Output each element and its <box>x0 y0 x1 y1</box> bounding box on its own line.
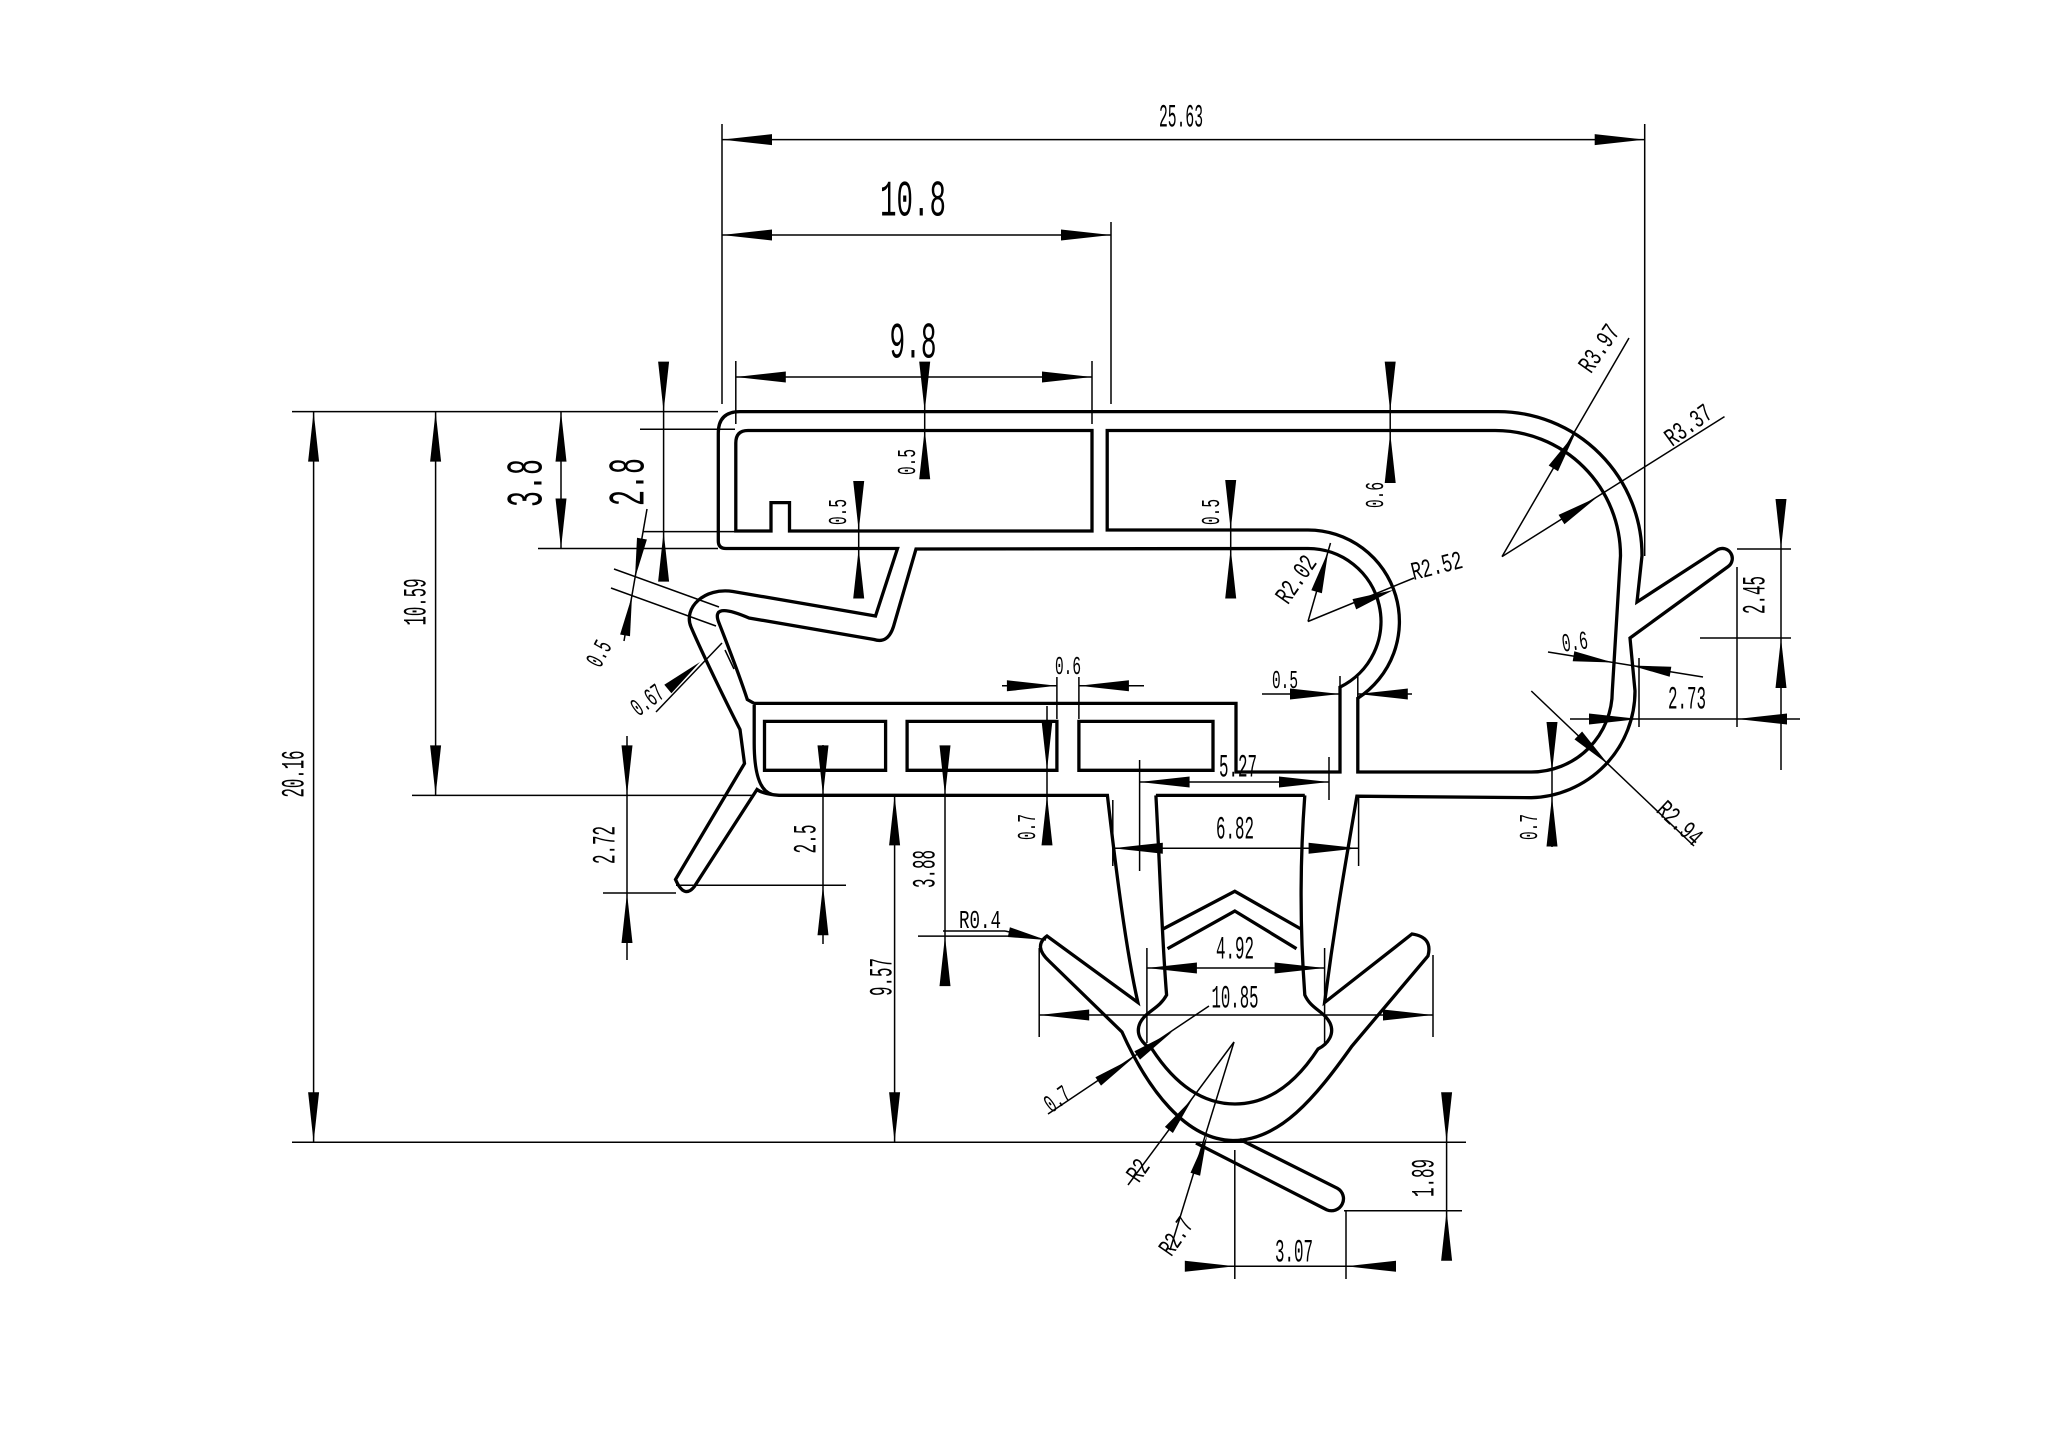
dimension 0.6 right top wall <box>1361 362 1396 508</box>
dimension 9.57 <box>865 795 902 1142</box>
dimension 0.5 neck <box>1262 666 1412 706</box>
svg-text:0.6: 0.6 <box>1055 652 1081 682</box>
radius R2.02 <box>1270 543 1331 622</box>
dimension 0.6 right wall <box>1548 626 1703 677</box>
right chamber void inner boundary <box>1107 431 1620 773</box>
dimension 9.8 <box>736 317 1092 425</box>
anchor chevron inner <box>1168 911 1297 949</box>
svg-text:0.5: 0.5 <box>1272 666 1298 696</box>
svg-text:4.92: 4.92 <box>1216 932 1254 969</box>
svg-text:0.7: 0.7 <box>1013 814 1043 840</box>
svg-text:3.88: 3.88 <box>908 850 945 888</box>
dimension 10.59 <box>399 412 753 796</box>
svg-text:R2.7: R2.7 <box>1153 1212 1201 1262</box>
anchor legs inner and bowl scoop <box>1138 795 1331 1104</box>
radius R2.7 <box>1153 1042 1234 1262</box>
steep wall right edge into band bottom <box>754 705 772 795</box>
dimension 2.8 <box>603 362 771 582</box>
dimension 0.5 top wall <box>893 362 930 480</box>
dimension 0.7 band wall right <box>1515 722 1558 847</box>
svg-text:2.45: 2.45 <box>1738 576 1775 614</box>
dimension 0.7 band wall left <box>1013 706 1053 845</box>
dimension 3.88 <box>908 745 1011 986</box>
svg-text:2.73: 2.73 <box>1668 682 1706 719</box>
dimension 2.5 <box>676 745 846 944</box>
svg-text:2.8: 2.8 <box>603 458 660 506</box>
svg-text:R2.94: R2.94 <box>1650 795 1708 852</box>
svg-text:25.63: 25.63 <box>1159 100 1203 137</box>
dimension 6.82 <box>1113 797 1359 866</box>
dimension 10.85 <box>1039 948 1433 1037</box>
band slot 3 <box>1079 721 1213 770</box>
hook inner wall and band top <box>717 549 1381 773</box>
svg-text:10.8: 10.8 <box>880 175 946 232</box>
svg-text:R2: R2 <box>1121 1154 1158 1188</box>
anchor chevron outer <box>1163 891 1301 929</box>
dimension 0.5 left floor wall <box>824 481 864 599</box>
profile outer outline <box>676 412 1733 1141</box>
svg-text:10.85: 10.85 <box>1212 981 1259 1018</box>
radius R2.94 <box>1531 691 1708 853</box>
radius R2.52 <box>1308 546 1466 621</box>
svg-text:0.7: 0.7 <box>1039 1080 1078 1120</box>
dimension 0.5 flap thickness <box>581 509 719 672</box>
svg-text:5.27: 5.27 <box>1219 750 1257 787</box>
band bottom between anchor legs <box>1156 794 1305 797</box>
dimension 0.6 rib <box>1002 652 1144 719</box>
dimension 2.45 <box>1700 499 1791 770</box>
svg-text:0.5: 0.5 <box>1197 499 1227 525</box>
svg-text:10.59: 10.59 <box>399 579 436 626</box>
svg-text:0.5: 0.5 <box>581 636 620 673</box>
dimension 0.7 bowl wall <box>1039 1006 1209 1120</box>
svg-text:1.89: 1.89 <box>1407 1159 1444 1197</box>
band slot 1 <box>765 721 886 770</box>
svg-text:R3.37: R3.37 <box>1659 399 1719 454</box>
dimension 20.16 overall height <box>277 412 1467 1143</box>
dimension 1.89 <box>1344 1092 1462 1260</box>
bottom tail spike <box>1196 1140 1343 1211</box>
svg-text:0.5: 0.5 <box>893 449 923 475</box>
radius R0.4 <box>943 906 1046 940</box>
left top chamber inner wall with stop rib <box>736 431 1092 532</box>
svg-text:9.57: 9.57 <box>865 958 902 996</box>
svg-text:6.82: 6.82 <box>1216 812 1254 849</box>
svg-text:R2.52: R2.52 <box>1408 546 1466 588</box>
dimension 0.5 right floor wall <box>1197 480 1236 599</box>
svg-text:3.8: 3.8 <box>501 459 558 507</box>
dimension 2.72 <box>588 736 677 960</box>
band slot 2 <box>907 721 1057 770</box>
radius R3.97 <box>1502 319 1629 557</box>
svg-text:R3.97: R3.97 <box>1573 319 1627 379</box>
dimension 4.92 <box>1147 932 1325 1044</box>
dimension 0.67 elbow leader <box>625 643 734 723</box>
svg-text:2.5: 2.5 <box>789 825 826 854</box>
svg-text:20.16: 20.16 <box>277 751 314 798</box>
dimension 5.27 <box>1140 750 1329 872</box>
svg-text:0.67: 0.67 <box>625 679 670 723</box>
svg-text:0.5: 0.5 <box>824 499 854 525</box>
svg-text:R0.4: R0.4 <box>959 906 1001 936</box>
svg-text:0.6: 0.6 <box>1560 626 1590 659</box>
svg-text:2.72: 2.72 <box>588 826 625 864</box>
dimension 2.73 <box>1570 567 1800 727</box>
svg-text:0.6: 0.6 <box>1361 482 1391 508</box>
dimension 3.07 <box>1185 1150 1396 1279</box>
svg-text:0.7: 0.7 <box>1515 814 1545 840</box>
svg-text:3.07: 3.07 <box>1275 1235 1313 1272</box>
radius R2 <box>1121 1042 1234 1188</box>
dimension 3.8 <box>501 412 719 549</box>
dimension 10.8 <box>722 175 1111 405</box>
dimension 25.63 overall width <box>722 100 1645 557</box>
radius R3.37 <box>1502 399 1725 557</box>
